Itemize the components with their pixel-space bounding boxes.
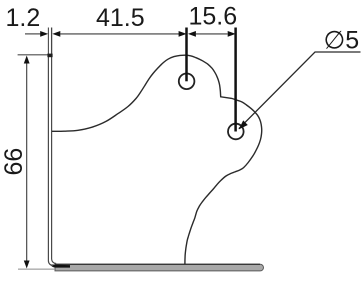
svg-text:1.2: 1.2 bbox=[6, 4, 41, 32]
leg top cap bbox=[47, 54, 52, 58]
hole 1 bbox=[179, 74, 195, 90]
svg-text:66: 66 bbox=[0, 148, 28, 176]
hole 2 bbox=[228, 124, 244, 140]
dimension line 15.6 bbox=[188, 31, 196, 37]
svg-text:41.5: 41.5 bbox=[96, 4, 145, 32]
leg extension lines above bbox=[47, 28, 49, 56]
centerline hole2 bbox=[234, 28, 237, 132]
top extension line bbox=[18, 54, 51, 56]
vertical leg inner line bbox=[52, 55, 57, 263]
dimension line 41.5 bbox=[60, 33, 179, 35]
leader line diameter 5 bbox=[239, 52, 361, 129]
bottom plate bar bbox=[55, 264, 264, 271]
centerline hole1 bbox=[185, 28, 188, 82]
bend thick black band bbox=[51, 264, 71, 267]
svg-text:15.6: 15.6 bbox=[189, 3, 238, 31]
dimension line 66 bbox=[26, 58, 28, 266]
vertical leg outer line bbox=[48, 55, 53, 265]
bottom extension line bbox=[18, 268, 55, 270]
svg-text:∅5: ∅5 bbox=[324, 27, 360, 55]
dimension line 1.2 bbox=[25, 33, 41, 35]
gusset outline bbox=[52, 55, 262, 264]
bar top edge dark bbox=[55, 263, 260, 265]
